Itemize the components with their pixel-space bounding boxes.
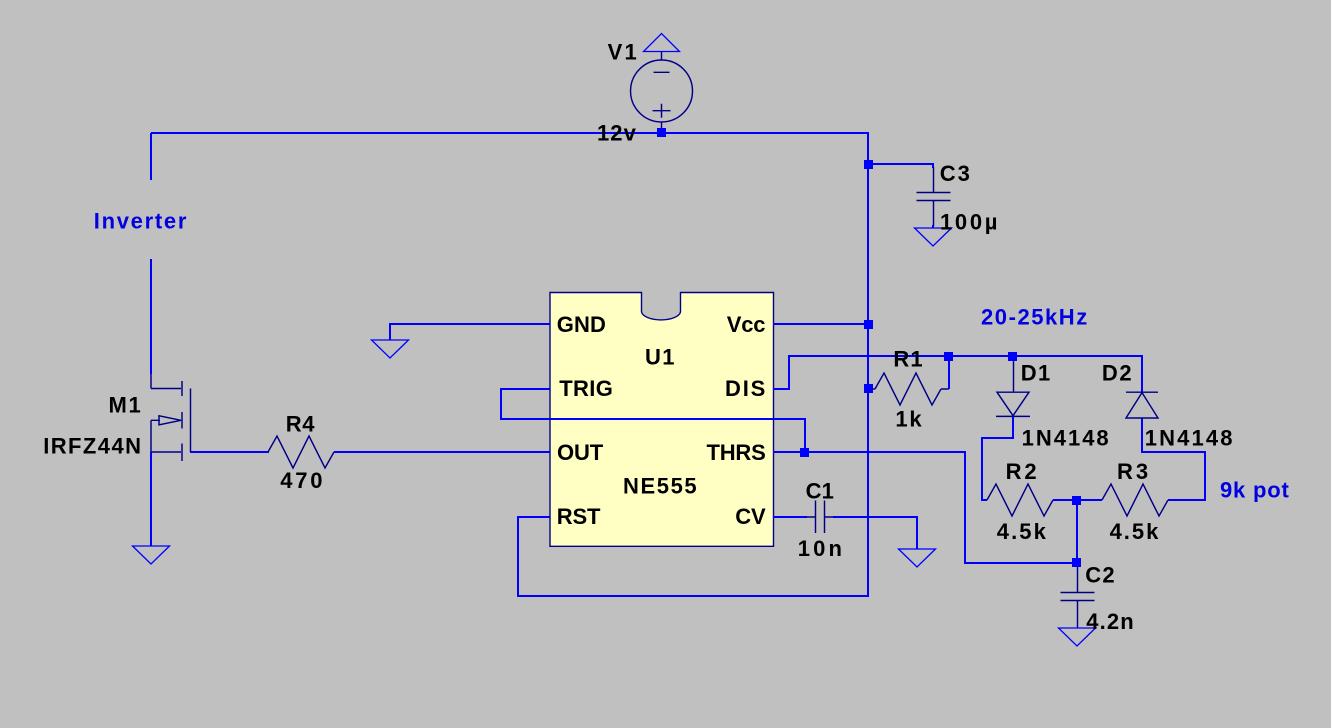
svg-text:4.5k: 4.5k bbox=[1110, 519, 1161, 544]
svg-text:4.5k: 4.5k bbox=[997, 519, 1048, 544]
svg-text:D2: D2 bbox=[1102, 361, 1133, 386]
svg-text:20-25kHz: 20-25kHz bbox=[981, 304, 1089, 329]
svg-text:V1: V1 bbox=[608, 39, 639, 64]
svg-text:Vcc: Vcc bbox=[727, 312, 766, 337]
svg-text:9k pot: 9k pot bbox=[1220, 477, 1290, 502]
svg-text:R3: R3 bbox=[1117, 459, 1151, 484]
svg-text:1k: 1k bbox=[895, 407, 923, 432]
svg-text:R4: R4 bbox=[286, 411, 315, 436]
svg-text:R1: R1 bbox=[893, 347, 923, 372]
svg-text:10n: 10n bbox=[798, 536, 845, 561]
svg-text:OUT: OUT bbox=[557, 440, 604, 465]
svg-text:U1: U1 bbox=[645, 345, 676, 370]
svg-text:M1: M1 bbox=[109, 393, 143, 418]
svg-text:RST: RST bbox=[557, 504, 601, 529]
svg-text:THRS: THRS bbox=[707, 440, 766, 465]
svg-text:DIS: DIS bbox=[725, 376, 767, 401]
svg-text:C3: C3 bbox=[940, 161, 972, 186]
svg-text:GND: GND bbox=[557, 312, 606, 337]
svg-text:470: 470 bbox=[280, 468, 325, 493]
svg-text:C2: C2 bbox=[1085, 563, 1116, 588]
svg-text:TRIG: TRIG bbox=[559, 376, 613, 401]
svg-text:D1: D1 bbox=[1021, 361, 1052, 386]
svg-text:1N4148: 1N4148 bbox=[1022, 426, 1111, 451]
svg-text:1N4148: 1N4148 bbox=[1145, 426, 1235, 451]
svg-text:12v: 12v bbox=[597, 121, 637, 146]
svg-text:100µ: 100µ bbox=[940, 210, 1000, 235]
svg-text:IRFZ44N: IRFZ44N bbox=[43, 434, 142, 459]
svg-text:4.2n: 4.2n bbox=[1086, 609, 1135, 634]
svg-text:Inverter: Inverter bbox=[94, 208, 188, 233]
svg-text:NE555: NE555 bbox=[623, 473, 698, 498]
svg-text:CV: CV bbox=[735, 504, 766, 529]
svg-text:R2: R2 bbox=[1006, 459, 1040, 484]
svg-text:C1: C1 bbox=[806, 478, 834, 503]
